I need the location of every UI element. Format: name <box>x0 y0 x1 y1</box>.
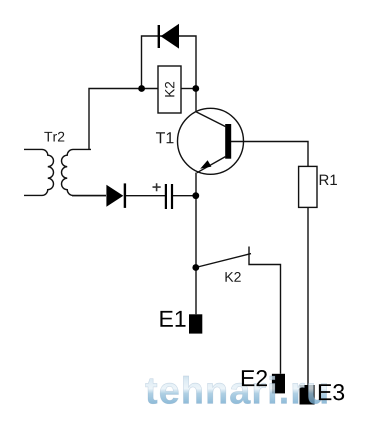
transformer Tr2 secondary winding <box>62 149 107 195</box>
wire emitter down through nodes to E1 <box>195 173 197 315</box>
relay coil K2 <box>158 66 181 113</box>
relay coil label K2 <box>165 82 174 97</box>
wire relay K2 right side to node <box>181 88 196 90</box>
transistor T1 emitter arrow <box>200 160 211 169</box>
wire node to transistor collector <box>195 89 197 112</box>
terminal E1 square <box>189 314 202 333</box>
label R1 <box>320 175 337 185</box>
watermark tehnari.ru <box>145 376 326 404</box>
freewheel diode D1 (cathode bar) <box>158 25 160 48</box>
switch K2 fixed contact <box>249 247 281 374</box>
label switch K2 <box>225 272 240 282</box>
rectifier diode D2 (cathode bar) <box>124 183 126 208</box>
transistor T1 circle <box>178 108 244 174</box>
label E1 <box>160 311 185 327</box>
transistor T1 base bar <box>225 124 231 159</box>
label T1 <box>156 132 174 143</box>
terminal E2 square <box>272 374 285 394</box>
wire base lead to R1 <box>231 142 308 167</box>
capacitor plus sign <box>153 183 161 191</box>
freewheel diode D1 (triangle) <box>161 24 179 49</box>
label E2 <box>242 370 267 386</box>
node: relay right junction <box>192 85 199 92</box>
wire freewheel diode branch <box>142 36 197 89</box>
transistor T1 emitter line <box>197 157 226 173</box>
capacitor C1 left plate <box>165 184 167 209</box>
wire secondary bottom to diode anode <box>72 195 106 197</box>
transistor T1 collector line <box>196 112 226 127</box>
wire secondary top to relay row <box>89 89 158 150</box>
switch K2 blade <box>196 254 251 268</box>
rectifier diode D2 (triangle) <box>106 185 123 207</box>
transformer Tr2 primary winding <box>24 149 54 195</box>
resistor R1 <box>299 166 317 207</box>
node: switch junction <box>192 264 199 271</box>
terminal E3 square <box>300 385 315 405</box>
label E3 <box>319 384 344 400</box>
capacitor C1 right plate <box>171 184 173 209</box>
label Tr2 <box>44 132 64 142</box>
wire diode cathode to capacitor <box>126 195 165 197</box>
wire R1 bottom to E3 <box>307 207 309 385</box>
wire capacitor to emitter node <box>173 195 196 197</box>
node: emitter capacitor junction <box>192 192 199 199</box>
node: relay left junction <box>138 85 145 92</box>
